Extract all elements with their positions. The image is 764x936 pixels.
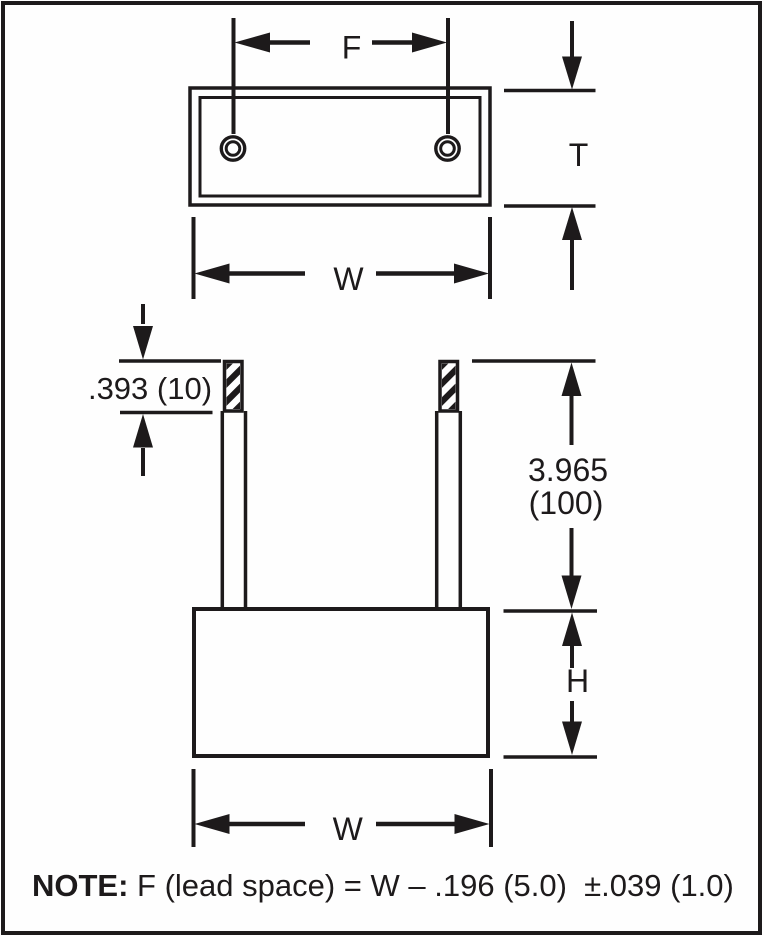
svg-text:T: T [569, 137, 589, 173]
svg-text:.393 (10): .393 (10) [88, 371, 212, 406]
svg-text:H: H [566, 663, 589, 699]
svg-text:W: W [333, 811, 364, 847]
svg-text:F: F [342, 30, 362, 66]
svg-text:W: W [333, 261, 364, 297]
svg-text:3.965: 3.965 [528, 452, 608, 488]
svg-text:(100): (100) [529, 485, 604, 521]
svg-text:NOTE: F (lead space) = W – .19: NOTE: F (lead space) = W – .196 (5.0) ±.… [32, 868, 734, 903]
